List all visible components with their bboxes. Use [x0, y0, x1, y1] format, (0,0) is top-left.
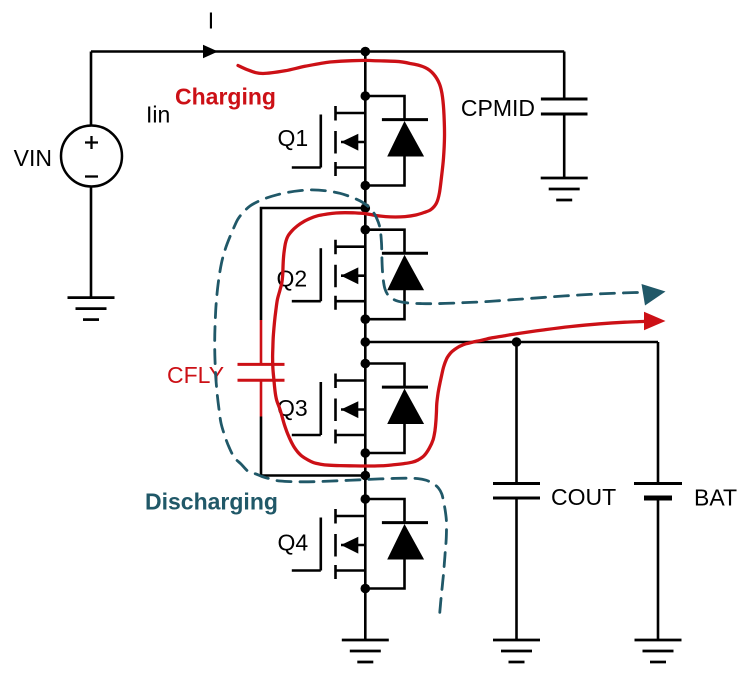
- ground under CPMID: [541, 178, 588, 200]
- svg-text:Iin: Iin: [146, 102, 170, 128]
- capacitor CFLY (red): [238, 364, 285, 380]
- node dot: CFLY bottom junction: [361, 471, 371, 481]
- wire: VIN source to ground: [90, 187, 93, 298]
- wire: top horizontal from VIN to CPMID: [91, 50, 564, 53]
- capacitor CPMID: [541, 99, 588, 114]
- transistor Q4 with body diode: [292, 499, 428, 589]
- discharging current path (teal dashed curve): [215, 190, 650, 612]
- wire: output node horizontal to BAT: [365, 341, 658, 344]
- current arrow I on top wire: [203, 45, 218, 58]
- ground under VIN: [68, 298, 115, 320]
- wire: CPMID branch vertical: [563, 52, 566, 100]
- wire: CFLY bottom lead and horizontal to rail: [261, 417, 365, 476]
- ground at bottom of rail: [342, 640, 389, 662]
- transistor Q3 with body diode: [292, 364, 428, 454]
- node dot: Q4 source: [361, 584, 371, 594]
- node dot: Q3 drain: [361, 359, 371, 369]
- svg-text:COUT: COUT: [551, 484, 616, 510]
- node dot: Q2 drain: [361, 225, 371, 235]
- svg-text:Charging: Charging: [175, 84, 276, 110]
- node dot: CFLY top junction: [361, 203, 371, 213]
- wire: COUT to ground: [515, 498, 518, 640]
- wire: CFLY red lower lead: [260, 380, 263, 416]
- node dot: Q2 source: [361, 314, 371, 324]
- battery BAT top plate: [634, 482, 682, 485]
- wire: BAT branch vertical: [657, 342, 660, 484]
- ground under BAT: [635, 640, 682, 662]
- ground under COUT: [493, 640, 540, 662]
- discharging arrowhead (teal): [642, 284, 666, 306]
- plus sign inside VIN: [85, 136, 98, 149]
- charging arrowhead (red): [644, 312, 666, 330]
- transistor Q2 with body diode: [292, 230, 428, 320]
- minus sign inside VIN: [85, 175, 98, 177]
- wire: COUT branch vertical: [515, 342, 518, 484]
- wire: main vertical rail: [364, 52, 367, 641]
- svg-text:VIN: VIN: [14, 145, 52, 171]
- capacitor COUT: [493, 484, 540, 499]
- svg-text:CPMID: CPMID: [461, 95, 535, 121]
- svg-text:BAT: BAT: [694, 485, 737, 511]
- node dot: Q1 drain: [361, 91, 371, 101]
- voltage source VIN circle: [61, 126, 122, 187]
- battery BAT bottom plate: [644, 496, 672, 501]
- wire: CFLY top horizontal: [261, 208, 365, 320]
- wire: VIN vertical lead down to source: [90, 52, 93, 126]
- svg-text:I: I: [208, 8, 214, 34]
- charging current path (red curve): [238, 60, 652, 466]
- node dot: Q4 drain: [361, 494, 371, 504]
- transistor Q1 with body diode: [292, 96, 428, 186]
- node dot: output junction on rail: [361, 337, 371, 347]
- node dot: Q1 source: [361, 181, 371, 191]
- svg-text:Q1: Q1: [278, 125, 309, 151]
- svg-text:Q4: Q4: [278, 530, 309, 556]
- node dot: Q3 source: [361, 448, 371, 458]
- svg-text:Discharging: Discharging: [145, 489, 278, 515]
- wire: CFLY red upper lead: [260, 320, 263, 364]
- wire: BAT to ground: [657, 498, 660, 640]
- node dot: top wire / rail junction: [361, 47, 371, 57]
- wire: CPMID to ground: [563, 114, 566, 178]
- node dot: COUT tap on output wire: [512, 337, 522, 347]
